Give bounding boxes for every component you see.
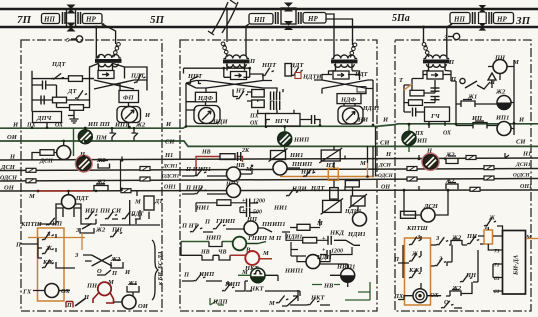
- contact box Ж2 on Н bus: [98, 161, 110, 169]
- wires Ж2 row: [456, 81, 514, 125]
- circle ИП1: [497, 122, 511, 136]
- left cabinet frame: [21, 40, 162, 311]
- resistor: [410, 90, 424, 96]
- svg-text:НГЧ: НГЧ: [274, 118, 290, 125]
- res box М: [297, 224, 310, 230]
- bus labels gap 1: [162, 121, 180, 191]
- red П terminal: [66, 302, 73, 308]
- svg-text:НДТ: НДТ: [289, 62, 304, 69]
- arrow box П loop: [404, 71, 456, 104]
- svg-text:П: П: [111, 270, 118, 277]
- box НР: [83, 14, 103, 24]
- orange wire row: [280, 176, 374, 178]
- svg-text:ПН: ПН: [86, 283, 98, 290]
- wire row B: [32, 79, 90, 101]
- cross X: [83, 255, 112, 266]
- svg-text:ОХ: ОХ: [250, 121, 259, 127]
- svg-text:О: О: [97, 268, 102, 275]
- svg-text:ОДСН1: ОДСН1: [162, 174, 180, 180]
- bus ДСН: [0, 169, 538, 171]
- wire ДСН: [32, 141, 64, 160]
- wires row4: [182, 275, 278, 291]
- svg-text:О(ДСН: О(ДСН: [513, 172, 530, 179]
- half circle НИП1: [341, 268, 355, 282]
- vertical rect: [330, 188, 339, 200]
- contact ИП1 between buses: [110, 129, 117, 141]
- wire top right loop: [125, 67, 148, 91]
- svg-text:ГХ: ГХ: [22, 289, 32, 296]
- orange wire М: [526, 238, 538, 240]
- svg-text:Н1: Н1: [522, 151, 531, 158]
- bus labels right edge: [513, 117, 532, 191]
- bowtie upper right joint: [479, 5, 487, 13]
- orange vertical М: [367, 163, 369, 177]
- svg-text:М: М: [512, 59, 519, 66]
- box НР: [494, 13, 514, 24]
- wires lower-left links: [38, 210, 140, 224]
- svg-text:НП: НП: [453, 16, 465, 24]
- arrow box П: [427, 71, 443, 79]
- contact box Ж2 on ОН: [94, 184, 108, 191]
- svg-text:СИ: СИ: [165, 139, 175, 146]
- svg-text:М: М: [134, 199, 141, 206]
- svg-text:НИП: НИП: [205, 235, 222, 242]
- transformer T2: [223, 55, 250, 67]
- svg-text:ИП: ИП: [416, 138, 428, 145]
- lamp double circle: [413, 289, 427, 303]
- bowtie lower: [284, 21, 293, 30]
- small label box: [357, 87, 366, 93]
- hatched circle Н with red halo: [76, 155, 93, 172]
- rail break slashes: [212, 2, 228, 33]
- svg-text:7П: 7П: [17, 14, 32, 26]
- terminal circle: [460, 78, 465, 83]
- svg-text:И: И: [518, 117, 525, 124]
- wire row C: [57, 85, 90, 108]
- capacitor 1200 lower: [327, 250, 330, 259]
- contact О: [97, 270, 111, 275]
- joint bars: [488, 12, 490, 24]
- svg-text:ОИ: ОИ: [7, 134, 18, 141]
- svg-text:НР: НР: [85, 16, 96, 24]
- svg-text:СИ: СИ: [516, 139, 526, 146]
- red circle ПН: [98, 282, 111, 295]
- box ГЧ: [425, 107, 450, 122]
- junction dots: [265, 125, 286, 128]
- svg-text:ОН1: ОН1: [520, 184, 532, 190]
- capacitor 1200: [247, 199, 250, 208]
- T1 primary wire: [98, 55, 100, 58]
- svg-text:5П: 5П: [150, 14, 165, 26]
- svg-text:НТ: НТ: [235, 88, 246, 95]
- transformer T1: [95, 54, 122, 66]
- cap ГЧ: [413, 108, 416, 117]
- wire x-cross: [90, 79, 141, 90]
- svg-text:ДСН: ДСН: [39, 159, 53, 165]
- wave circle НКТ: [251, 268, 265, 283]
- svg-text:Н1: Н1: [164, 152, 173, 159]
- box НДФ 2: [337, 94, 361, 104]
- svg-text:И: И: [12, 122, 19, 129]
- svg-text:+: +: [322, 236, 326, 242]
- contact bucket ЧВ: [219, 255, 230, 260]
- svg-text:Н: Н: [385, 151, 392, 158]
- varistor НИ1: [269, 149, 288, 162]
- svg-text:М: М: [359, 160, 366, 167]
- row3 НВ ЧВ boxes: [202, 255, 213, 260]
- tan contact Т: [404, 84, 412, 90]
- hres ДСН left: [26, 168, 36, 172]
- rail lower: [0, 26, 538, 28]
- svg-text:НИ: НИ: [357, 117, 369, 124]
- wires НДП: [297, 256, 330, 262]
- svg-text:НВ: НВ: [201, 150, 211, 156]
- transformer T3: [331, 55, 358, 67]
- wire left rail vertical: [31, 71, 33, 100]
- svg-text:И: И: [124, 269, 131, 276]
- wire НКТ bottom: [246, 291, 330, 305]
- caps pair bottom: [271, 101, 274, 110]
- svg-text:ИП ПП: ИП ПП: [87, 121, 111, 128]
- wires row2: [246, 242, 266, 244]
- contact box Ж2 on ОН: [446, 183, 458, 190]
- svg-text:П: П: [15, 242, 22, 249]
- svg-text:П: П: [66, 303, 72, 309]
- half circle Ж2: [497, 96, 511, 110]
- svg-text:НДТ: НДТ: [354, 72, 368, 78]
- svg-text:П НИП1: П НИП1: [185, 166, 211, 173]
- wire НП row: [182, 193, 227, 195]
- wire row3: [181, 242, 219, 256]
- resistor R row A: [69, 76, 83, 82]
- ПДТ windings: [56, 204, 81, 217]
- svg-text:НИ1: НИ1: [195, 205, 209, 212]
- svg-text:ПН: ПН: [494, 55, 506, 62]
- svg-text:П: П: [393, 256, 400, 263]
- arrester T1: [114, 43, 121, 58]
- svg-text:НВ: НВ: [200, 250, 210, 256]
- svg-text:НИ1: НИ1: [289, 152, 303, 159]
- svg-text:М: М: [262, 250, 269, 257]
- svg-text:ОХ: ОХ: [55, 123, 64, 129]
- svg-text:Ж2: Ж2: [95, 227, 106, 234]
- svg-text:М: М: [28, 193, 35, 200]
- vertical Н to ОН: [120, 160, 122, 191]
- svg-text:к БИ, БС-ДА: к БИ, БС-ДА: [158, 251, 164, 285]
- wire caps col: [258, 100, 294, 113]
- wire left col: [186, 74, 263, 126]
- resistor: [409, 100, 423, 106]
- wires row1: [203, 228, 290, 232]
- wire joint to T2: [246, 24, 249, 56]
- wire М: [241, 168, 252, 174]
- svg-text:И: И: [382, 117, 389, 124]
- contact НИП1: [193, 168, 207, 177]
- bus ОДСН: [0, 179, 538, 182]
- hres ОДСН: [407, 177, 417, 181]
- wires ПН: [488, 60, 514, 135]
- contact НДИ: [284, 187, 298, 197]
- T3 leads down: [335, 64, 337, 71]
- bus labels gap 2: [378, 117, 394, 191]
- joint frame: [67, 9, 76, 27]
- svg-text:НДТ: НДТ: [310, 185, 325, 192]
- wire М vertical middle: [375, 127, 377, 177]
- resistor R2: [53, 97, 67, 103]
- contact Ж2 between buses: [132, 129, 139, 141]
- box НП: [249, 14, 273, 25]
- svg-text:НДП: НДП: [212, 299, 228, 306]
- vertical ticks on buses: [122, 155, 419, 191]
- wire НТ row: [233, 89, 252, 101]
- svg-text:ГЧ: ГЧ: [430, 113, 441, 120]
- svg-text:НП: НП: [43, 16, 55, 24]
- svg-text:НР: НР: [496, 16, 507, 24]
- varistor НТ: [319, 148, 342, 163]
- triangle: [488, 73, 496, 80]
- bus ОН: [0, 190, 538, 191]
- svg-text:ДСН: ДСН: [378, 163, 392, 169]
- svg-text:ОХ: ОХ: [61, 288, 70, 295]
- bus ОИ (green): [0, 141, 538, 146]
- ground: [70, 116, 79, 124]
- svg-text:НР: НР: [307, 15, 318, 23]
- svg-text:ДСН1: ДСН1: [162, 164, 178, 170]
- svg-text:ОДСН: ОДСН: [0, 176, 17, 182]
- svg-text:НДФ: НДФ: [340, 97, 356, 104]
- svg-text:ГНИП: ГНИП: [215, 218, 236, 225]
- svg-text:Ж2: Ж2: [135, 122, 146, 129]
- wire НПТ left loop: [184, 68, 250, 77]
- pin stubs: [493, 236, 503, 291]
- svg-text:М: М: [268, 300, 275, 307]
- contact НП: [193, 186, 207, 195]
- svg-text:ПН: ПН: [466, 233, 478, 240]
- bus Н: [0, 158, 538, 160]
- svg-text:НИП1: НИП1: [284, 268, 303, 275]
- T4 leads down: [428, 64, 430, 71]
- wire П rail: [21, 234, 75, 268]
- orange box КПТШ: [38, 228, 65, 301]
- svg-text:П: П: [183, 272, 190, 279]
- hres ДСН right: [140, 167, 150, 171]
- bowtie lower: [67, 23, 76, 32]
- wire loop T1 secondary: [90, 63, 125, 78]
- svg-text:НВ: НВ: [323, 283, 334, 290]
- svg-text:ПНИП: ПНИП: [291, 161, 313, 168]
- transistor arrow: [282, 290, 298, 306]
- joint column: [478, 12, 480, 24]
- resistor R3: [70, 105, 84, 111]
- circle НДП: [306, 255, 320, 269]
- svg-text:Ж2: Ж2: [495, 89, 506, 96]
- svg-text:М: М: [107, 279, 114, 286]
- svg-text:М: М: [316, 220, 323, 227]
- wire joint to T1: [96, 27, 99, 58]
- contact above КПТШ: [45, 217, 59, 226]
- wires ИП row: [456, 126, 514, 129]
- contact НКД: [334, 240, 360, 245]
- box ДПЧ: [33, 112, 62, 123]
- contact НПТ: [260, 67, 274, 77]
- hres Н bus: [466, 156, 476, 160]
- hatched circle ИП: [84, 128, 86, 145]
- hres ОН: [470, 187, 480, 191]
- circle ДСН: [421, 208, 435, 222]
- svg-text:НДИ1: НДИ1: [285, 235, 302, 241]
- orange wire: [28, 237, 85, 239]
- arrester T2: [221, 42, 228, 57]
- wires: [286, 233, 328, 240]
- circle ГНИП green: [233, 237, 247, 251]
- svg-text:НП: НП: [253, 16, 265, 24]
- svg-text:ОН1: ОН1: [164, 185, 176, 191]
- red loop НВ: [196, 157, 243, 173]
- wire right of cross: [263, 81, 283, 93]
- svg-text:ИП: ИП: [51, 221, 63, 228]
- svg-text:НКТ: НКТ: [310, 295, 325, 302]
- wire rail to T1 arrester: [103, 25, 116, 45]
- wire НИП1 half circle: [320, 264, 348, 287]
- circle НДИ1: [353, 212, 367, 226]
- meter НИ: [343, 108, 359, 124]
- contact tick Н bus: [505, 153, 509, 158]
- junction dots bus: [84, 127, 135, 143]
- wire Ж-Т-БИ: [478, 226, 503, 278]
- capacitor C2: [41, 96, 44, 105]
- hatched circle Н red halo: [422, 153, 439, 170]
- box БИ-ДА: [503, 231, 526, 295]
- wire rail to T4: [423, 27, 425, 44]
- bowtie upper: [284, 3, 293, 12]
- contact box Ж2 on Н: [446, 156, 458, 164]
- arrow box ПДТ: [98, 71, 114, 79]
- wire Ж1 to ОИ: [114, 219, 137, 302]
- wire M to ДТ: [69, 191, 138, 196]
- bus labels left edge: [0, 122, 19, 192]
- meter НДИ frame: [194, 106, 220, 124]
- contact box Ж2: [111, 260, 123, 268]
- svg-text:П: П: [249, 58, 256, 65]
- transformer T4: [423, 55, 450, 67]
- box НГЧ: [266, 114, 301, 127]
- wire rail to T2: [226, 9, 228, 42]
- right cabinet frame: [395, 40, 531, 311]
- rail upper: [0, 8, 538, 10]
- svg-text:З: З: [74, 252, 79, 259]
- svg-text:ОН: ОН: [4, 185, 15, 192]
- caps pair top: [271, 92, 274, 101]
- circle ГХ-ОХ: [45, 284, 59, 298]
- green wires bottom: [210, 282, 370, 305]
- relay ДСН loop: [404, 190, 448, 215]
- orange wire vert: [81, 233, 83, 250]
- wires lamp: [398, 296, 434, 300]
- contact НПТ on orange: [301, 168, 315, 178]
- red slash contact: [75, 298, 86, 306]
- wire П: [398, 236, 421, 289]
- contact ПН: [108, 228, 122, 238]
- capacitor 500: [247, 208, 250, 217]
- resistor stack 1: [252, 90, 265, 98]
- svg-text:НИ1: НИ1: [273, 205, 287, 212]
- svg-text:ИП1: ИП1: [495, 115, 509, 122]
- svg-text:ПДТ: ПДТ: [75, 196, 89, 202]
- contact НДТ: [289, 66, 303, 77]
- svg-text:61: 61: [494, 289, 500, 295]
- svg-text:П: П: [448, 59, 455, 66]
- contact box ИП: [473, 121, 487, 129]
- circle ПНИП: [273, 161, 287, 175]
- orange box Т: [484, 230, 493, 244]
- res box right: [345, 181, 359, 188]
- circle НП row1: [244, 221, 258, 235]
- contact П-Н: [465, 81, 477, 88]
- junction dots: [408, 122, 516, 160]
- red circle НКТ: [245, 251, 259, 265]
- svg-text:П: П: [204, 219, 211, 226]
- svg-text:ФП: ФП: [123, 95, 135, 102]
- res box ДСН: [401, 211, 416, 218]
- wire joint to T4: [447, 24, 452, 57]
- cap 2К: [238, 152, 241, 161]
- svg-text:НПТ: НПТ: [187, 73, 203, 80]
- wire ДПЧ: [32, 100, 74, 128]
- meter И: [122, 107, 138, 123]
- contact ДТ: [73, 89, 87, 99]
- svg-text:НДИ1: НДИ1: [347, 231, 366, 238]
- svg-text:БИ-ДА: БИ-ДА: [513, 254, 520, 276]
- svg-text:ДТ: ДТ: [154, 199, 163, 205]
- red wires ПН legs: [93, 293, 114, 304]
- varistor right: [349, 194, 367, 208]
- svg-text:НИП: НИП: [293, 137, 310, 144]
- wire НГЧ cap: [266, 120, 320, 124]
- arrester T3: [350, 43, 357, 58]
- svg-text:ДПЧ: ДПЧ: [36, 115, 52, 122]
- resistor ДСН: [40, 150, 54, 156]
- svg-text:НВ: НВ: [235, 163, 245, 169]
- box НП: [42, 14, 60, 24]
- wire П row: [182, 172, 226, 176]
- svg-text:2К: 2К: [241, 148, 250, 154]
- contact ПДТ right: [132, 73, 146, 84]
- wire ФП meter: [111, 84, 129, 128]
- svg-text:КПТШ: КПТШ: [20, 221, 42, 228]
- box НДФ: [195, 92, 216, 102]
- wire x-cross M: [186, 81, 263, 89]
- transformer ПДТ bottom: circle: [62, 195, 76, 209]
- vertical resistor: [285, 64, 292, 77]
- meter И frame: [117, 107, 141, 123]
- joint bars: [62, 12, 64, 24]
- hres ОДСН left: [26, 179, 36, 183]
- svg-text:КПТШ: КПТШ: [406, 225, 428, 232]
- svg-text:СИ: СИ: [380, 140, 390, 147]
- svg-text:ИП1: ИП1: [114, 122, 128, 129]
- green vertical И to Н circle: [73, 128, 75, 156]
- varistor low: [321, 198, 344, 214]
- box ФП: [119, 91, 139, 103]
- svg-text:ЗП: ЗП: [515, 15, 531, 27]
- contacts row: [83, 210, 97, 220]
- junction dots buses: [31, 8, 458, 193]
- svg-text:+: +: [322, 248, 326, 254]
- circle ПН: [493, 60, 507, 74]
- svg-text:Ж2: Ж2: [96, 180, 106, 186]
- middle cabinet frame: [180, 40, 377, 311]
- meter НИ frame: [338, 106, 363, 124]
